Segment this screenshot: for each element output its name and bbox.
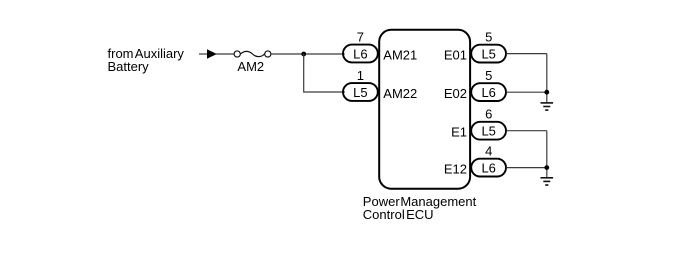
connector L6 pin 4 bbox=[471, 144, 506, 177]
svg-text:L6: L6 bbox=[353, 46, 367, 61]
connector L5 pin 6 bbox=[471, 107, 506, 140]
wire bbox=[304, 54, 345, 92]
fuse AM2 bbox=[234, 51, 271, 74]
ground bbox=[541, 103, 554, 110]
wire bbox=[506, 167, 547, 169]
svg-text:E12: E12 bbox=[444, 162, 467, 177]
svg-text:E1: E1 bbox=[451, 125, 467, 140]
svg-text:L5: L5 bbox=[353, 85, 367, 100]
svg-text:Battery: Battery bbox=[108, 59, 150, 74]
wire bbox=[271, 53, 345, 55]
wire bbox=[506, 53, 547, 55]
ground bbox=[541, 178, 554, 185]
node junction bbox=[301, 52, 306, 57]
wire bbox=[199, 53, 209, 55]
svg-text:L5: L5 bbox=[481, 47, 495, 62]
svg-text:L6: L6 bbox=[481, 85, 495, 100]
svg-text:AM21: AM21 bbox=[383, 48, 417, 63]
svg-text:L5: L5 bbox=[481, 124, 495, 139]
svg-text:Control ECU: Control ECU bbox=[363, 207, 434, 222]
connector L6 pin 5 bbox=[471, 68, 506, 101]
svg-text:E02: E02 bbox=[444, 86, 467, 101]
wire bbox=[546, 54, 548, 103]
svg-text:1: 1 bbox=[357, 68, 364, 83]
svg-text:AM22: AM22 bbox=[383, 86, 417, 101]
svg-text:7: 7 bbox=[357, 30, 364, 45]
svg-text:5: 5 bbox=[485, 68, 492, 83]
wire bbox=[216, 53, 234, 55]
wire bbox=[506, 91, 547, 93]
node junction bbox=[544, 165, 549, 170]
svg-text:5: 5 bbox=[485, 30, 492, 45]
svg-text:L6: L6 bbox=[481, 161, 495, 176]
op-amp U1 ECU box bbox=[379, 30, 470, 189]
label from Auxiliary Battery bbox=[108, 46, 185, 74]
connector L6 pin 7 bbox=[343, 30, 378, 63]
svg-text:E01: E01 bbox=[444, 48, 467, 63]
wire bbox=[546, 131, 548, 178]
svg-text:4: 4 bbox=[485, 144, 492, 159]
svg-text:AM2: AM2 bbox=[237, 59, 264, 74]
arrow bbox=[208, 50, 216, 58]
node junction bbox=[544, 90, 549, 95]
label Power Management Control ECU bbox=[363, 194, 477, 222]
connector L5 pin 5 bbox=[471, 30, 506, 63]
connector L5 pin 1 bbox=[343, 68, 378, 101]
wire bbox=[506, 130, 547, 132]
svg-text:6: 6 bbox=[485, 107, 492, 122]
